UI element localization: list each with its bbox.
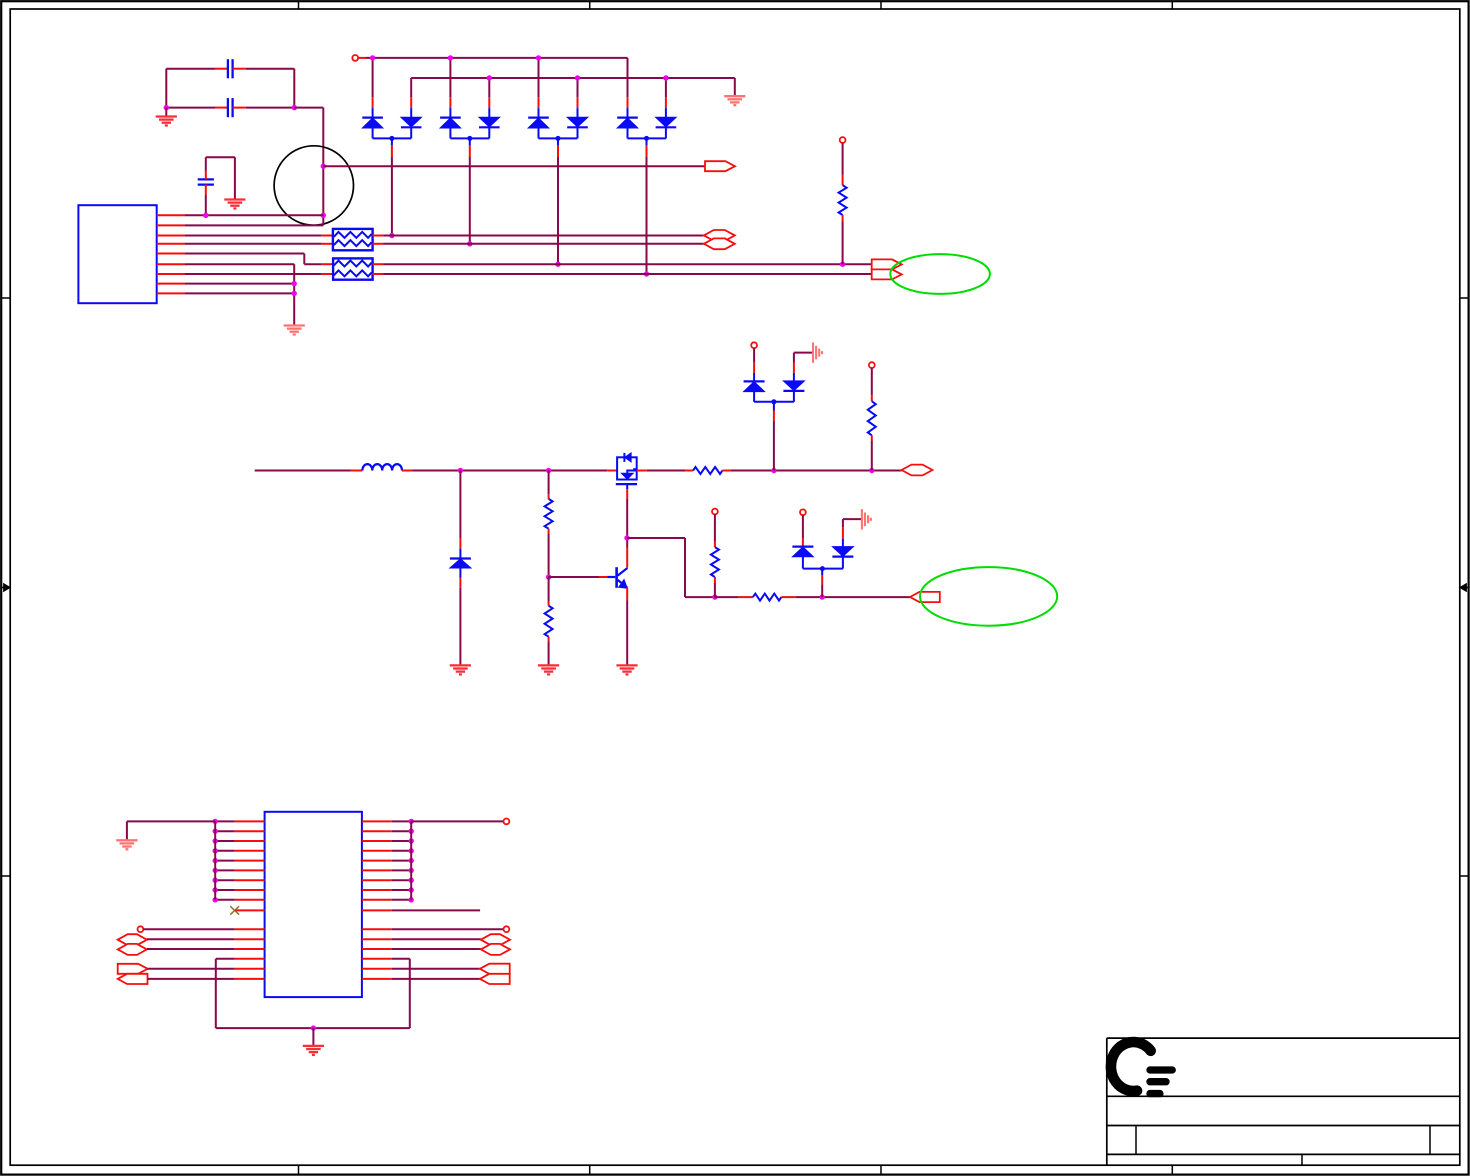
wire C1 right lead bbox=[233, 68, 295, 70]
junction main R6 bbox=[869, 468, 874, 473]
junction left caps bbox=[164, 105, 169, 110]
U2 rowA left wire bbox=[143, 928, 264, 930]
port RX hex bbox=[704, 230, 735, 241]
junction pair 4 bbox=[644, 271, 649, 276]
wire gate jog bbox=[627, 538, 715, 597]
U2 rowD left wire bbox=[148, 968, 265, 970]
wire rail to ground bbox=[312, 1028, 314, 1046]
title block bbox=[1107, 1038, 1460, 1165]
port left C hex bbox=[118, 944, 147, 955]
junction pin8 bus bbox=[292, 281, 297, 286]
capacitor C1 bbox=[228, 59, 233, 78]
U2 ground row right bbox=[362, 959, 410, 1028]
junction rail1 bbox=[370, 55, 375, 60]
terminal R6 top bbox=[869, 362, 875, 368]
wire pin3 long bbox=[372, 235, 704, 237]
wire C3 bottom lead bbox=[205, 185, 207, 216]
diode D3 bbox=[440, 108, 461, 138]
ground U2 left bbox=[116, 840, 137, 849]
port MIC arrow bbox=[705, 161, 735, 171]
wire main left bbox=[255, 470, 363, 472]
junction right caps bbox=[292, 105, 297, 110]
U2 rowC left wire bbox=[147, 948, 265, 950]
junction rail2 bbox=[575, 75, 580, 80]
wire U1 pin7 bbox=[185, 273, 333, 275]
border center arrow right bbox=[1460, 584, 1469, 592]
diode pair 1 bracket bbox=[373, 136, 412, 141]
diode D6 lead bbox=[577, 78, 579, 108]
junction R1 bottom bbox=[840, 262, 845, 267]
chassis ground TVS-B bbox=[862, 509, 871, 529]
diode D12 lead bbox=[843, 519, 862, 539]
junction pin9 bus bbox=[292, 291, 297, 296]
diode pair 2 bracket bbox=[450, 136, 489, 141]
wire U1 pin4 bbox=[185, 243, 333, 245]
junction MIC top bbox=[321, 164, 326, 169]
transistor Q2 bbox=[607, 567, 627, 588]
TVS-A stub bbox=[773, 402, 775, 471]
wire pin7 long bbox=[372, 273, 871, 275]
junction pair 3 bbox=[555, 262, 560, 267]
diode D4 bbox=[479, 108, 500, 138]
ground under C3 bbox=[224, 200, 245, 209]
ground Q2 bbox=[616, 665, 637, 674]
junction MIC bottom bbox=[321, 213, 326, 218]
wire main right bbox=[637, 470, 693, 472]
U2 left bus junctions bbox=[213, 819, 218, 903]
ground U1 pins bbox=[284, 326, 305, 335]
junction main TVS-A bbox=[771, 468, 776, 473]
port left E tag bbox=[118, 974, 148, 984]
junction R5 bottom bbox=[712, 594, 717, 599]
ground R4 bbox=[538, 665, 559, 674]
border center arrow left bbox=[1, 584, 10, 592]
U2 rowC right wire bbox=[362, 948, 481, 950]
wire C2 right lead bbox=[233, 107, 295, 109]
wire C1 left lead bbox=[166, 68, 228, 70]
annotation ellipse USB bbox=[890, 254, 990, 294]
MOSFET Q1 bbox=[616, 453, 637, 484]
diode D8 lead bbox=[665, 78, 667, 108]
port VOUT hex bbox=[902, 465, 933, 476]
U2 rowD right wire bbox=[362, 968, 480, 970]
junction rail1 bbox=[536, 55, 541, 60]
diode D1 bbox=[362, 108, 383, 138]
resistor R2 bbox=[693, 467, 722, 474]
wire MIC+ to port bbox=[323, 165, 705, 167]
ground under caps bbox=[156, 108, 177, 126]
TVS-B stub bbox=[821, 569, 823, 598]
junction rail2 bbox=[663, 75, 668, 80]
port D- tag bbox=[872, 269, 902, 279]
wire U1 pin3 bbox=[185, 235, 333, 237]
U2 pin10 left stub bbox=[235, 909, 265, 911]
diode D5 lead bbox=[459, 471, 461, 549]
junction TVS-B bbox=[820, 594, 825, 599]
wire pin4 long bbox=[372, 243, 704, 245]
port left D tag bbox=[118, 964, 148, 974]
terminal right A bbox=[504, 926, 510, 932]
wire U1 pin5 jog bbox=[185, 254, 333, 265]
U2 rowB left wire bbox=[147, 938, 265, 940]
diode D8 bbox=[656, 108, 677, 138]
U2 rowA right wire bbox=[362, 928, 504, 930]
wire D5 to ground bbox=[459, 578, 461, 666]
capacitor C3 bbox=[198, 179, 214, 184]
port TX hex bbox=[704, 238, 735, 249]
U2 right bus bbox=[410, 821, 412, 899]
wire U1 pin2 bbox=[185, 224, 323, 226]
U2 rowE left wire bbox=[148, 978, 265, 980]
port right C hex bbox=[481, 944, 510, 955]
wire base bbox=[549, 576, 608, 578]
junction rail2 bbox=[487, 75, 492, 80]
diode D11 bbox=[792, 547, 813, 569]
junction C3 pin1 bbox=[203, 213, 208, 218]
resistor R4 bbox=[545, 577, 553, 665]
wire lower net bbox=[715, 596, 753, 598]
diode D2 bbox=[401, 108, 422, 138]
diode D4 lead bbox=[488, 78, 490, 108]
diode D5 bbox=[528, 108, 549, 138]
wire Q2 emitter to ground bbox=[626, 588, 628, 665]
terminal VBUS bbox=[352, 55, 358, 61]
wire caps to node MIC bbox=[294, 108, 323, 167]
U2 ground rail bbox=[216, 1027, 410, 1029]
wire C3 top lead bbox=[206, 157, 235, 179]
diode pair 2 stub bbox=[469, 138, 471, 243]
port PWM tag bbox=[910, 592, 940, 602]
annotation ellipse PWM bbox=[920, 567, 1057, 626]
diode D12 bbox=[832, 539, 853, 569]
wire U1 pin9 bbox=[185, 292, 294, 294]
terminal TVS-A left bbox=[751, 342, 757, 348]
junction pair 2 bbox=[467, 241, 472, 246]
diode D2 lead bbox=[410, 78, 412, 108]
wire C1-C2 left vertical bbox=[165, 69, 167, 108]
U2 rowB right wire bbox=[362, 938, 481, 940]
junction main D5 bbox=[458, 468, 463, 473]
capacitor C2 bbox=[228, 98, 233, 117]
wire pin5 long bbox=[372, 263, 871, 265]
resistor R3 bbox=[545, 471, 553, 578]
chassis ground TVS-A bbox=[813, 342, 822, 362]
wire C1-C2 right vertical bbox=[293, 69, 295, 108]
diode pair 3 stub bbox=[557, 138, 559, 264]
terminal U2 right bbox=[504, 819, 510, 825]
diode D3 lead bbox=[449, 58, 451, 108]
company logo bbox=[1111, 1042, 1176, 1097]
IC U2 bbox=[265, 812, 362, 997]
junction base node bbox=[546, 574, 551, 579]
junction main R3 bbox=[546, 468, 551, 473]
resistor R5 bbox=[711, 514, 719, 597]
diode D10 lead bbox=[794, 353, 813, 373]
terminal R5 top bbox=[712, 509, 718, 515]
diode pair 4 stub bbox=[646, 138, 648, 274]
ferrite bead FB2 bbox=[333, 258, 373, 279]
wire MIC vertical bbox=[322, 166, 324, 225]
junction gate node bbox=[624, 535, 629, 540]
diode D7 bbox=[617, 108, 638, 138]
wire U1 pin1 bbox=[185, 214, 323, 216]
diode D1 lead bbox=[372, 58, 374, 108]
terminal R1 top bbox=[840, 137, 846, 143]
U2 left pin wires bbox=[215, 821, 264, 899]
ground rail2 bbox=[724, 96, 745, 105]
diode pair 4 bracket bbox=[628, 136, 666, 141]
no-connect cross bbox=[230, 906, 239, 914]
rail1 wire bbox=[358, 57, 627, 59]
junction pair 1 bbox=[389, 233, 394, 238]
resistor R7 bbox=[753, 594, 782, 601]
wire main right2 bbox=[722, 470, 901, 472]
wire bus to terminal right bbox=[411, 820, 503, 822]
diode D11 lead bbox=[802, 515, 804, 546]
port left B hex bbox=[118, 934, 147, 945]
wire main mid bbox=[402, 470, 617, 472]
U2 right pin wires bbox=[362, 821, 411, 899]
U2 rowE right wire bbox=[362, 978, 480, 980]
junction rail1 bbox=[448, 55, 453, 60]
ferrite bead FB1 bbox=[333, 229, 373, 250]
U2 ground row left bbox=[216, 959, 265, 1028]
ground U2 bottom bbox=[303, 1046, 324, 1055]
microphone MK1 circle bbox=[274, 146, 353, 225]
terminal left A bbox=[138, 926, 144, 932]
port right E tag bbox=[480, 974, 510, 984]
ground D5 bbox=[450, 665, 471, 674]
wire U1 pin6 to ground bus bbox=[185, 264, 294, 325]
wire Q2 collector bbox=[626, 538, 628, 568]
rail2 ground drop bbox=[734, 78, 736, 96]
rail2 wire bbox=[411, 77, 735, 79]
diode D7 lead bbox=[627, 58, 629, 108]
IC U1 bbox=[78, 205, 156, 303]
IC U1 pin stubs bbox=[157, 215, 185, 293]
diode D6 bbox=[567, 108, 588, 138]
diode D10 bbox=[783, 373, 804, 402]
resistor R1 bbox=[839, 143, 847, 264]
resistor R6 bbox=[868, 368, 876, 471]
port D+ tag bbox=[872, 259, 902, 269]
diode D5 lead bbox=[538, 58, 540, 108]
wire C2 left lead bbox=[166, 107, 228, 109]
wire lower net2 bbox=[781, 596, 910, 598]
wire Q1 source bbox=[626, 484, 628, 538]
inductor L1 bbox=[362, 464, 402, 470]
U2 right bus junctions bbox=[409, 819, 414, 903]
U2 pin10 right wire bbox=[362, 909, 480, 911]
wire U1 pin8 bbox=[185, 283, 294, 285]
wire C3 ground drop bbox=[234, 157, 236, 199]
U2 left bus bbox=[214, 821, 216, 899]
diode pair 3 bracket bbox=[539, 136, 578, 141]
diode D5 bbox=[450, 549, 471, 578]
port right B hex bbox=[481, 934, 510, 945]
diode D9 lead bbox=[753, 348, 755, 373]
diode D9 bbox=[744, 373, 765, 402]
TVS-B bracket bbox=[803, 566, 843, 571]
junction ground rail bbox=[311, 1025, 316, 1030]
TVS-A bracket bbox=[754, 399, 794, 404]
port right D tag bbox=[480, 964, 510, 974]
wire bus to ground left bbox=[127, 821, 215, 840]
diode pair 1 stub bbox=[391, 138, 393, 235]
terminal TVS-B left bbox=[800, 509, 806, 515]
